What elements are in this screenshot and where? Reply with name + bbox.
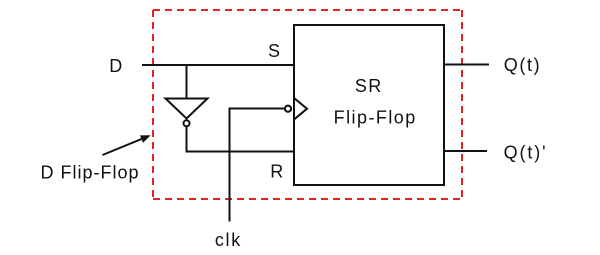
wire inverter output down [186,127,188,152]
svg-text:Q(t)': Q(t)' [504,142,548,162]
inverter output bubble [184,120,190,126]
wire clk vertical [229,108,231,222]
svg-text:SR: SR [355,76,383,96]
wire branch to inverter [186,65,188,98]
wire to R input [186,151,295,153]
annotation arrowhead [140,135,151,143]
clock edge-trigger wedge [294,98,307,120]
SR flip-flop box U1 [294,25,444,185]
svg-text:R: R [270,162,283,182]
wire D input to S [142,64,294,66]
svg-text:D Flip-Flop: D Flip-Flop [41,162,140,182]
inverter (NOT gate) [166,99,208,119]
svg-text:D: D [109,56,122,76]
annotation arrow [103,138,144,155]
dashed boundary of D flip-flop : top edge [153,9,462,11]
dashed boundary : bottom edge [153,198,462,200]
dashed boundary : right edge [461,10,463,199]
clock input bubble [285,106,291,112]
wire Q output [444,64,489,66]
svg-text:S: S [268,41,280,61]
svg-text:Flip-Flop: Flip-Flop [334,107,417,127]
svg-text:clk: clk [215,230,242,250]
wire Q' output [444,150,487,152]
wire clk horizontal [230,108,285,110]
svg-text:Q(t): Q(t) [504,55,541,75]
dashed boundary : left edge [152,10,154,199]
